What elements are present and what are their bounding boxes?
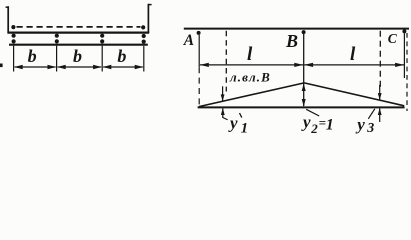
svg-text:l: l <box>350 44 356 65</box>
svg-text:3: 3 <box>366 121 374 136</box>
svg-text:л.вл.В: л.вл.В <box>229 70 271 85</box>
svg-text:y: y <box>355 115 365 134</box>
svg-text:b: b <box>73 46 82 66</box>
svg-text:l: l <box>247 44 253 65</box>
svg-text:1: 1 <box>326 117 334 134</box>
svg-text:A: A <box>183 32 194 49</box>
svg-text:b: b <box>117 46 126 66</box>
svg-text:y: y <box>301 113 311 132</box>
svg-text:С: С <box>388 31 398 46</box>
svg-text:1: 1 <box>241 121 249 137</box>
svg-text:y: y <box>228 114 238 133</box>
svg-text:В: В <box>285 31 298 51</box>
svg-text:b: b <box>28 46 37 66</box>
svg-text:2: 2 <box>310 121 318 136</box>
